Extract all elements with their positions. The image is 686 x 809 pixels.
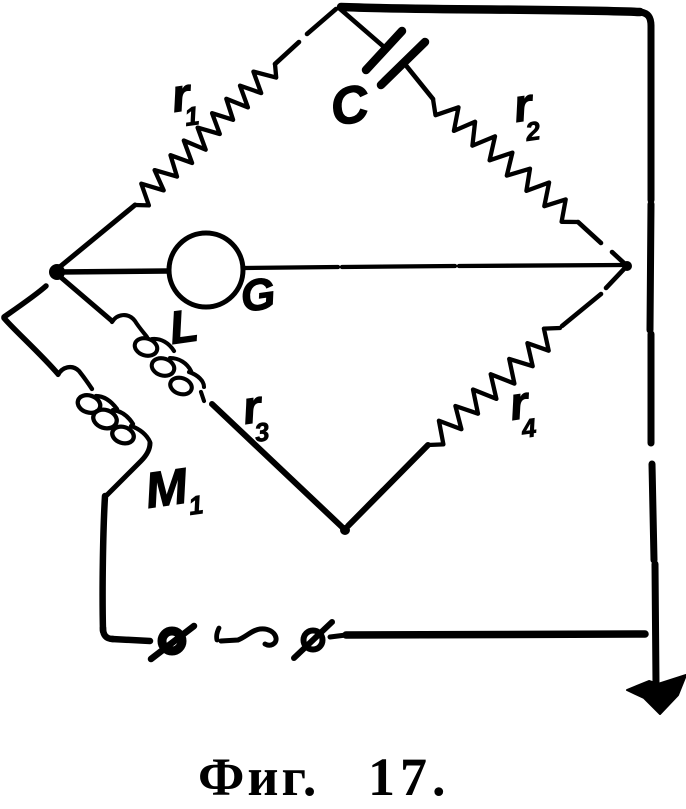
wire left bend to M1 [4, 318, 58, 374]
inductor L hump [112, 315, 147, 337]
wire key to right side [346, 634, 645, 635]
inductor L arc 2 [152, 339, 174, 351]
key flexible link [217, 628, 276, 645]
label C [326, 74, 374, 138]
wire top node to capacitor [339, 8, 384, 47]
wire right vertical [650, 26, 656, 684]
arrow current direction [627, 675, 686, 714]
inductor L loop 3 [168, 375, 194, 397]
label G [238, 269, 279, 322]
svg-text:17.: 17. [368, 747, 451, 804]
wire r1 arm lower segment [56, 205, 135, 270]
wire left node down-left stub [4, 286, 46, 317]
wire M1 to vertical corner [107, 443, 150, 495]
inductor L loop 1 [132, 335, 159, 358]
label r2 [510, 78, 543, 147]
wire bottom to key terminal [112, 639, 150, 641]
wire r2 to right node [578, 222, 625, 264]
resistor r2 [433, 99, 578, 222]
inductor M1 arc 2 [96, 396, 117, 409]
inductor L loop 2 [149, 355, 176, 378]
svg-text:Фиг.: Фиг. [198, 747, 319, 804]
resistor r1 [135, 64, 276, 205]
inductor M1 arc 3 [113, 410, 133, 424]
key terminal 1 [151, 626, 194, 659]
label r1 [168, 68, 201, 132]
wire left node to galvanometer [58, 271, 168, 272]
wire r4 to right node [562, 269, 624, 326]
node right bridge corner [622, 261, 632, 271]
wire left vertical segment [103, 496, 105, 631]
inductor M1 loop 3 [110, 424, 136, 446]
wire bottom node to r4 [348, 445, 428, 526]
wire top right corner [640, 12, 651, 26]
label M1 [142, 457, 205, 520]
wire bottom left corner [103, 628, 113, 639]
capacitor C plate 2 [381, 42, 425, 85]
caption Fig. 17 [198, 747, 451, 807]
node left bridge corner [49, 264, 65, 280]
wire left node to inductor L [57, 274, 112, 321]
node bottom bridge corner [340, 525, 350, 535]
label r4 [506, 376, 539, 444]
inductor L exit arc [189, 372, 204, 401]
label L [166, 298, 201, 353]
wire r1 arm upper segment [275, 9, 336, 64]
wire inductor L to bottom node [212, 404, 342, 527]
inductor M1 hump [58, 367, 92, 389]
wire top node to right corner [341, 7, 640, 12]
inductor M1 loop 2 [91, 407, 119, 432]
inductor M1 loop 1 [75, 392, 102, 415]
inductor L arc 3 [170, 358, 191, 371]
galvanometer G [169, 233, 243, 307]
wire galvanometer to right node [244, 265, 624, 268]
inductor M1 exit arc [131, 426, 150, 442]
key terminal 2 [294, 622, 346, 658]
wire capacitor to r2 [404, 63, 433, 99]
capacitor C plate 1 [366, 31, 402, 70]
label r3 [239, 380, 272, 448]
resistor r4 [428, 328, 560, 445]
svg-text:G: G [238, 269, 279, 322]
